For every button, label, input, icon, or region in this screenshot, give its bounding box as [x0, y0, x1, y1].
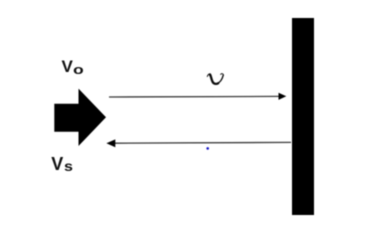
blue dot (stray mark under reflected arrow)	[206, 147, 209, 150]
label v (wave speed, italic greek upsilon above incident arrow)	[207, 73, 223, 84]
label Vo (observer velocity)	[62, 58, 81, 76]
label Vs (source velocity)	[51, 155, 72, 173]
wave arrow right (incident wave toward wall)	[109, 93, 286, 100]
wall (reflecting surface, black vertical bar)	[292, 18, 314, 215]
wave arrow left (reflected wave from wall)	[106, 139, 291, 147]
block arrow (sound source, solid right-pointing arrow)	[54, 89, 106, 146]
